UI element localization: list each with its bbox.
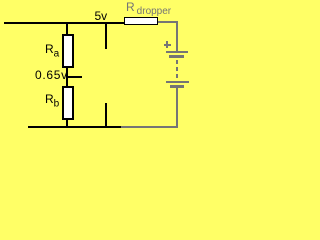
wire Ra to junction [66,66,68,86]
wire battery top lead [176,21,178,52]
wire top rail 5v [4,22,124,24]
battery cell2 long plate [166,81,190,83]
wire battery bottom lead [176,88,178,128]
resistor Rb [62,86,74,120]
node 5v label [95,10,108,22]
wire Rb to ground rail [66,118,68,127]
battery dashed link dash3 [176,74,178,78]
wire bottom rail gray [121,126,177,128]
battery plus sign vertical [166,41,168,48]
label 0.65v [35,69,68,81]
battery cell1 short plate [169,55,185,58]
wire emitter stub [105,103,107,127]
battery dashed link dash1 [176,60,178,64]
label Rb [45,93,59,109]
battery cell2 short plate [170,85,184,88]
label Rdropper [126,1,171,17]
wire bottom rail black [28,126,121,128]
resistor Ra [62,34,74,68]
wire dropper to battery [158,21,177,23]
wire 5v collector stub [105,22,107,49]
label Ra [45,43,59,59]
wire base stub [67,76,82,78]
battery dashed link dash2 [176,67,178,71]
battery cell1 long plate [166,51,189,53]
wire left branch top [66,22,68,35]
battery plus sign horizontal [164,44,171,46]
resistor Rdropper [124,17,158,25]
